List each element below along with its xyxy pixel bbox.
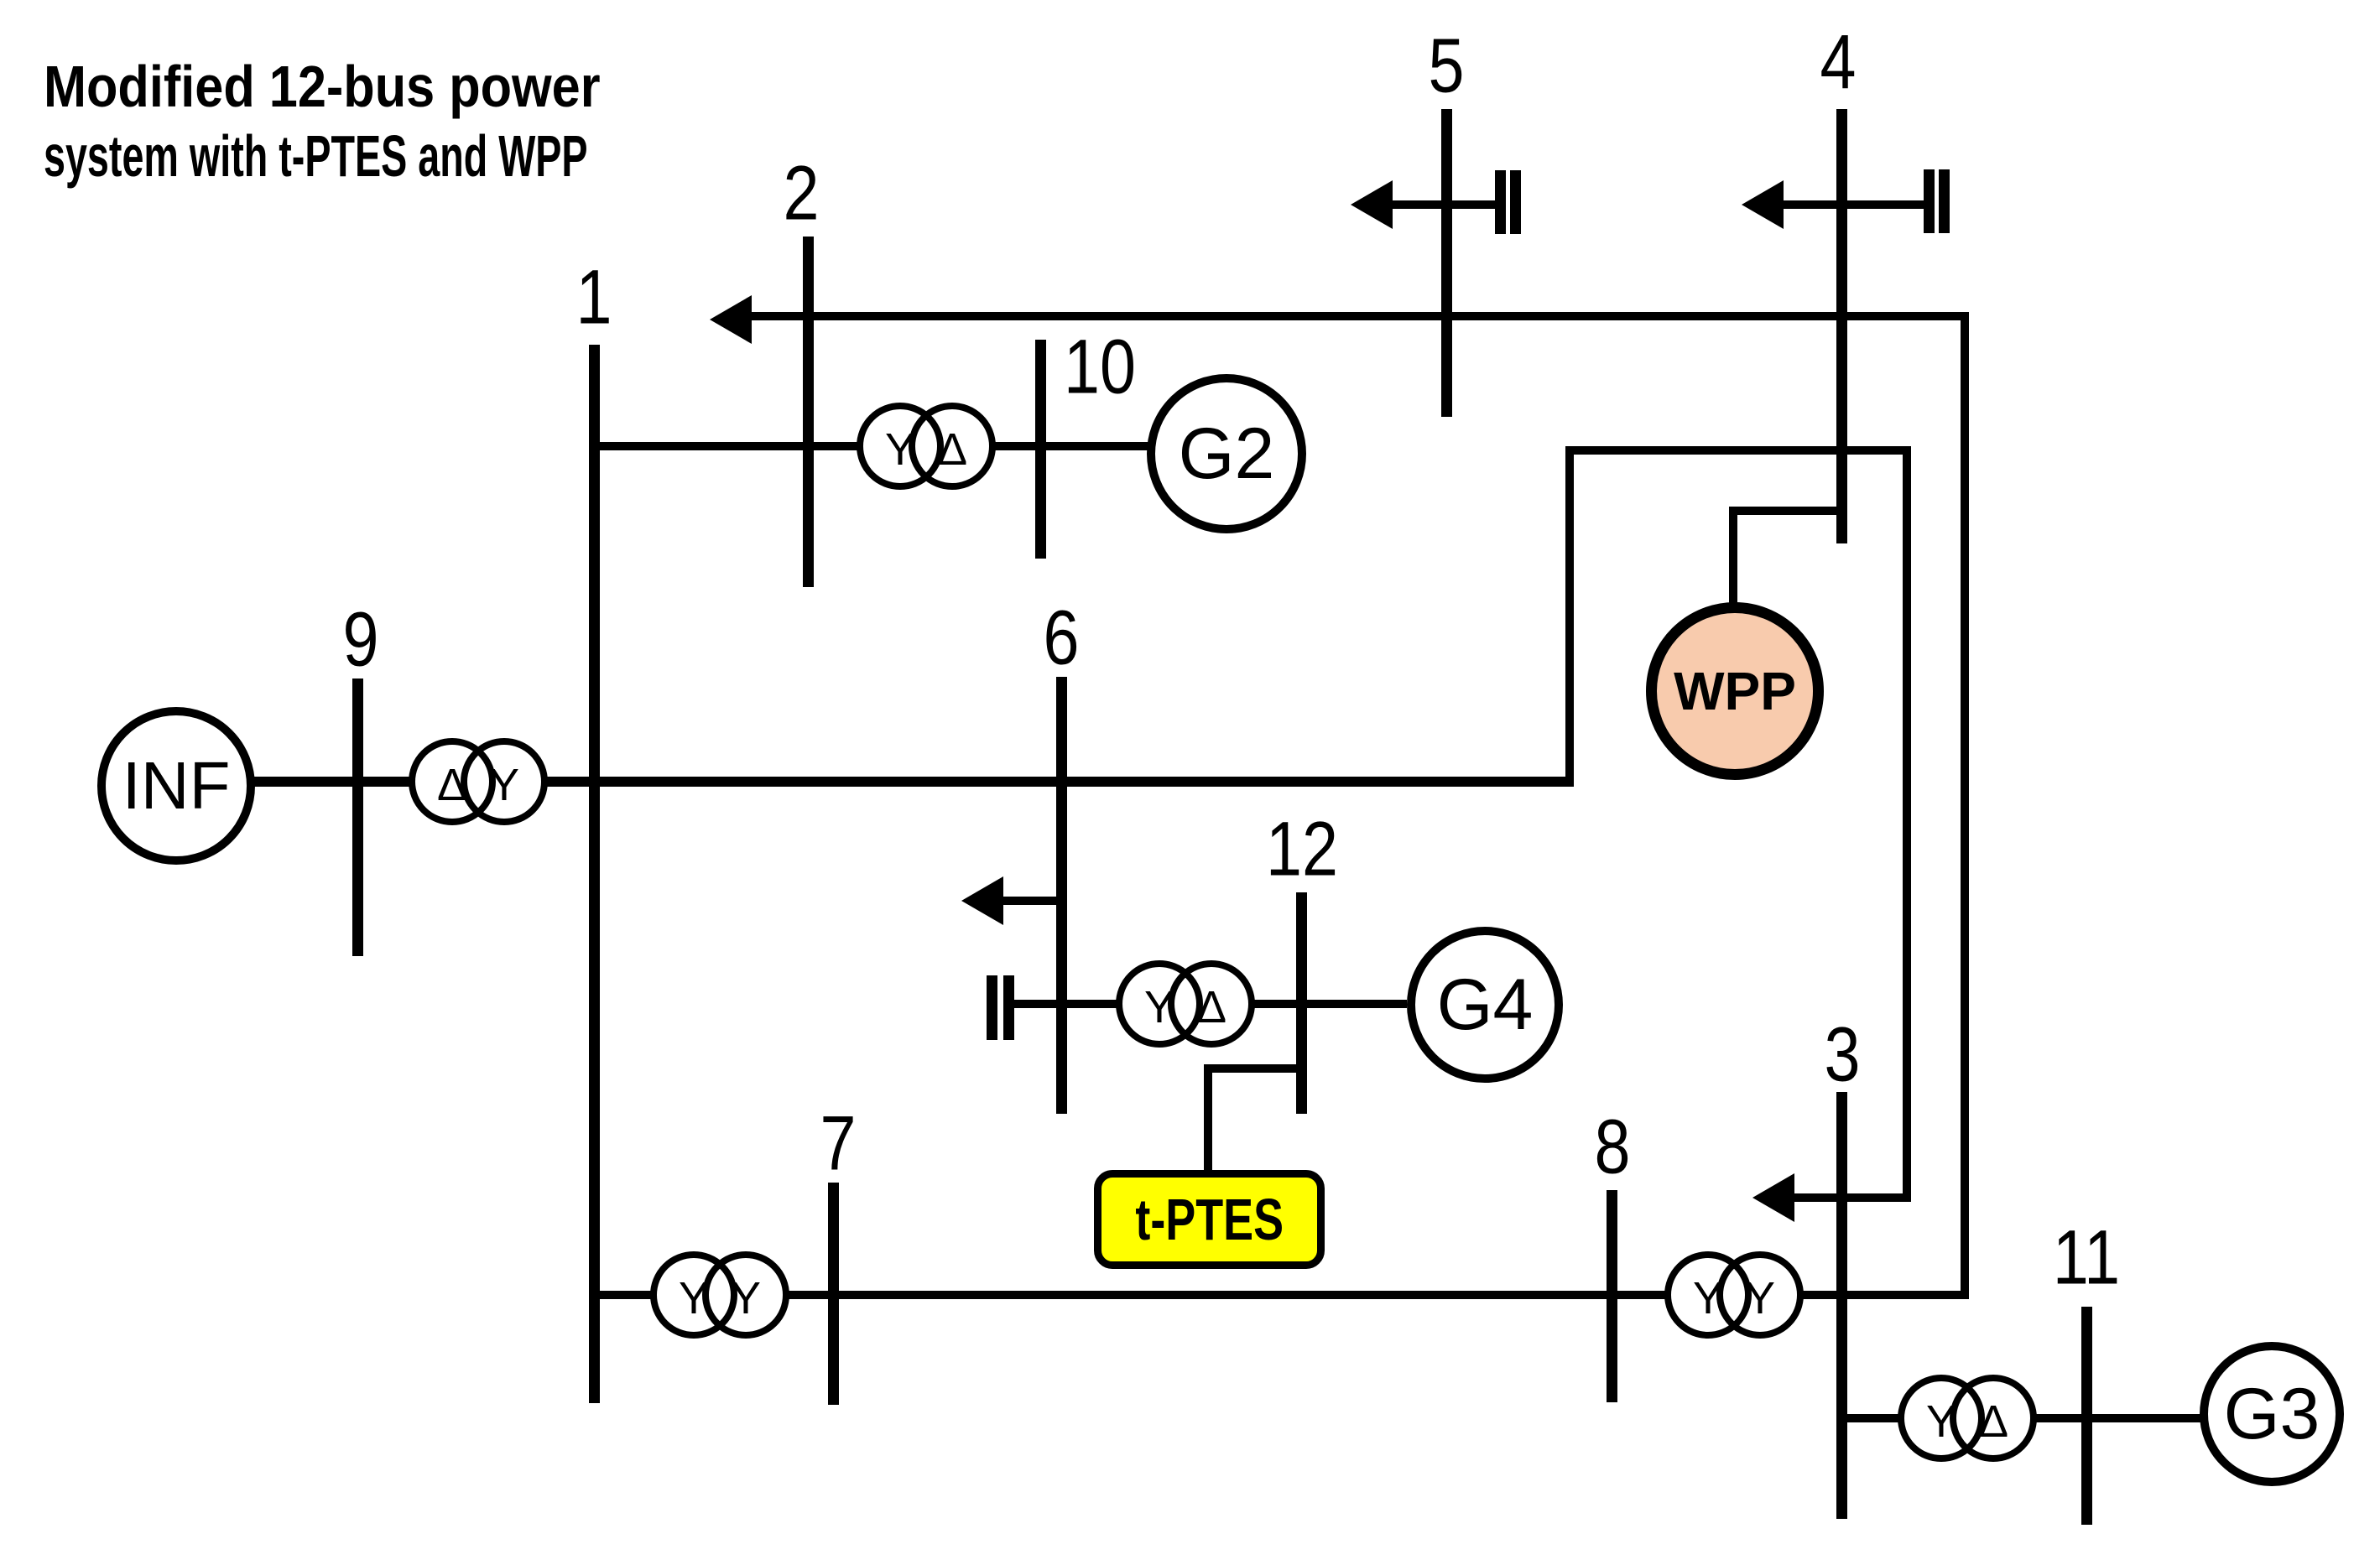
wire: WPP link horizontal (y609)	[1729, 507, 1846, 515]
node 4 label	[1820, 19, 1857, 107]
bus 6	[1056, 677, 1067, 1114]
capacitor at bus 4	[1924, 169, 1935, 233]
wire: t-PTES link vertical (x1440)	[1204, 1064, 1212, 1172]
wire: vertical x2273 down to arrow line	[1903, 446, 1911, 1202]
load arrow at bus 2	[710, 295, 752, 344]
bus 4	[1836, 109, 1847, 543]
transformer T1 bus2-bus10 (Y-D)	[852, 400, 1000, 492]
bus 2	[803, 237, 814, 587]
node 2 label	[784, 150, 820, 238]
generator G2	[1147, 374, 1306, 533]
bus 9	[352, 679, 363, 956]
t-PTES storage block	[1094, 1170, 1325, 1269]
wire: upper horizontal from riser to corner (y537)	[1565, 446, 1911, 455]
bus 1	[589, 345, 600, 1403]
bus 7	[828, 1183, 839, 1405]
transformer T3 bus6-bus12 (Y-D)	[1112, 958, 1259, 1050]
bus 10	[1035, 340, 1046, 559]
bus 3	[1836, 1092, 1847, 1519]
wire: arrow line into bus3 (y1428)	[1794, 1193, 1911, 1202]
generator G4	[1407, 927, 1563, 1083]
wire: WPP link vertical (x2066)	[1729, 507, 1737, 606]
node 6 label	[1044, 595, 1080, 683]
node 9 label	[343, 596, 379, 684]
transformer T2 bus9-bus1 (D-Y)	[404, 736, 552, 828]
capacitor at bus 6	[987, 975, 997, 1040]
node 1 label	[576, 254, 612, 342]
generator WPP	[1646, 602, 1824, 780]
wire: right vertical from (2342,377) down to bottom line	[1961, 312, 1969, 1298]
transformer T4 bus1-bus7 (Y-Y)	[646, 1249, 794, 1341]
capacitor at bus 5	[1495, 170, 1506, 234]
node 3 label	[1825, 1011, 1861, 1100]
wire: capacitor-bus6-G4 line (y1197)	[1013, 1000, 1407, 1008]
wire: line bus3-11-G3 (y1691)	[1841, 1414, 2204, 1422]
wire: line bus1 to G2 (y532)	[590, 442, 1150, 450]
wire: bus5 arrow+capacitor line (y244)	[1391, 200, 1497, 209]
bus 12	[1296, 892, 1307, 1114]
title line 2	[44, 127, 588, 185]
wire: bus4 arrow+capacitor line (y244)	[1783, 200, 1927, 209]
bus 8	[1607, 1190, 1617, 1402]
load arrow at bus 4	[1742, 180, 1784, 229]
wire: riser from bus6 line up (x1871)	[1565, 446, 1574, 786]
load arrow at bus 3	[1752, 1173, 1794, 1222]
transformer T5 bus8-bus3 (Y-Y)	[1660, 1249, 1808, 1341]
node 8 label	[1595, 1104, 1631, 1192]
node 5 label	[1429, 23, 1465, 111]
wire: line bus2 to corner top-right (y377)	[742, 312, 1969, 320]
node 7 label	[820, 1100, 857, 1188]
title line 1	[44, 57, 601, 116]
bus 5	[1441, 109, 1452, 417]
wire: main INF horizontal (y932)	[252, 777, 1574, 787]
bus 11	[2081, 1307, 2092, 1525]
wire: t-PTES link horizontal (y1274)	[1204, 1064, 1305, 1073]
wire: bottom main line bus1-7-8-3 (y1544)	[590, 1291, 1969, 1299]
node 10 label	[1064, 324, 1136, 412]
generator INF	[97, 707, 255, 865]
generator G3	[2200, 1342, 2344, 1486]
wire: load arrow shaft at bus6 (y1074)	[1003, 897, 1065, 905]
load arrow at bus 5	[1351, 180, 1393, 229]
transformer T6 bus3-bus11 (Y-D)	[1893, 1372, 2041, 1464]
node 11 label	[2053, 1214, 2120, 1302]
node 12 label	[1266, 806, 1338, 894]
load arrow at bus 6	[961, 876, 1003, 925]
